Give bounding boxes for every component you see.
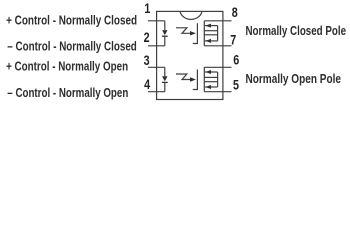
svg-text:5: 5	[233, 78, 239, 93]
LED D2 anode wire	[164, 67, 166, 76]
pin 2 lead	[148, 45, 165, 47]
svg-text:1: 1	[144, 1, 150, 16]
pin 8 lead / Q1 drain	[204, 20, 231, 22]
svg-text:– Control - Normally Open: – Control - Normally Open	[7, 85, 128, 100]
LED D2 cathode wire	[164, 82, 166, 91]
LED D1 (NC control)	[162, 30, 168, 36]
MOSFET Q2 gate (lead + bar)	[193, 70, 198, 90]
MOSFET Q1 gate (lead + bar)	[193, 23, 198, 43]
IC orientation notch	[180, 11, 202, 19]
LED D1 cathode wire	[164, 36, 166, 46]
MOSFET Q1 channel	[203, 21, 205, 46]
pin 3 lead	[148, 66, 165, 68]
MOSFET Q2 channel	[203, 67, 205, 91]
svg-text:Normally Closed Pole: Normally Closed Pole	[246, 23, 347, 38]
svg-text:+ Control - Normally Open: + Control - Normally Open	[6, 59, 128, 74]
Q2 source lead (bottom)	[204, 81, 217, 83]
Q1 source lead (top)	[204, 30, 217, 32]
svg-text:– Control - Normally Closed: – Control - Normally Closed	[7, 38, 137, 53]
Q1 body arrow (top)	[205, 24, 218, 28]
LED D2 (NO control)	[162, 76, 168, 82]
svg-text:2: 2	[144, 30, 150, 45]
svg-text:Normally Open Pole: Normally Open Pole	[246, 71, 342, 86]
svg-text:6: 6	[233, 52, 239, 67]
Q1 common source tie	[217, 26, 219, 41]
pin 4 lead	[148, 91, 165, 93]
Q1 body arrow (bottom)	[205, 39, 218, 43]
light arrow (NO cell)	[176, 74, 196, 82]
pin 1 lead	[148, 20, 165, 22]
IC body box	[157, 11, 223, 99]
pin 6 lead / Q2 drain	[204, 66, 231, 68]
svg-text:3: 3	[144, 53, 150, 68]
svg-text:+ Control - Normally Closed: + Control - Normally Closed	[6, 12, 137, 27]
Q2 body arrow (top)	[205, 70, 218, 74]
LED D1 anode wire	[164, 21, 166, 30]
svg-text:4: 4	[144, 77, 150, 92]
pin 5 lead / Q2 drain (bottom)	[204, 91, 231, 93]
light arrow (NC cell)	[176, 28, 196, 36]
pin 7 lead / Q1 drain (bottom)	[204, 45, 231, 47]
Q1 source lead (bottom)	[204, 34, 217, 36]
Q2 body arrow (bottom)	[205, 85, 218, 89]
svg-text:8: 8	[232, 5, 238, 20]
Q2 source lead (top)	[204, 76, 217, 78]
Q2 common source tie	[217, 72, 219, 87]
